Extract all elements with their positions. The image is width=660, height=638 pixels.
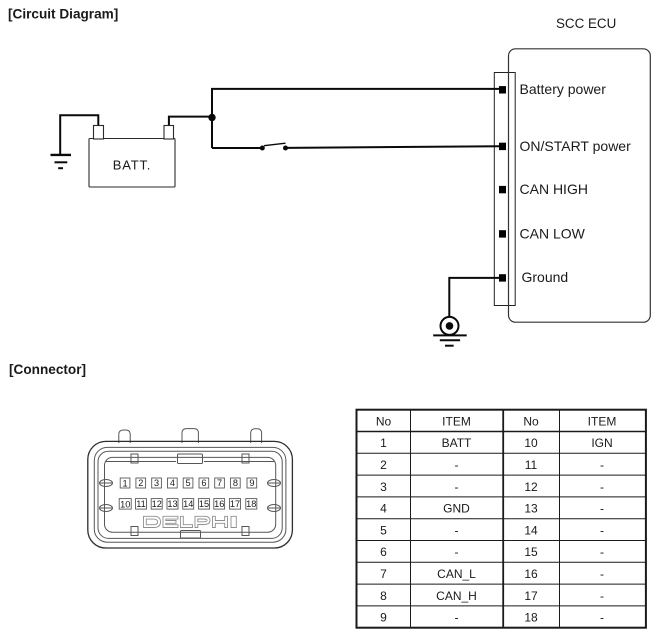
svg-text:SCC ECU: SCC ECU	[556, 16, 616, 31]
svg-text:11: 11	[525, 458, 538, 472]
svg-text:-: -	[455, 611, 459, 625]
svg-text:5: 5	[380, 523, 387, 537]
svg-text:16: 16	[214, 499, 224, 509]
svg-text:-: -	[455, 458, 459, 472]
svg-text:IGN: IGN	[591, 436, 612, 450]
svg-text:4: 4	[380, 502, 387, 516]
svg-text:Ground: Ground	[522, 269, 569, 285]
svg-text:6: 6	[380, 545, 387, 559]
svg-text:1: 1	[123, 478, 128, 488]
svg-text:11: 11	[136, 499, 146, 509]
svg-text:18: 18	[246, 499, 256, 509]
svg-text:No: No	[376, 414, 392, 428]
svg-text:13: 13	[524, 502, 538, 516]
svg-text:-: -	[455, 545, 459, 559]
svg-text:10: 10	[120, 499, 130, 509]
svg-text:9: 9	[380, 611, 387, 625]
svg-text:17: 17	[524, 589, 538, 603]
svg-text:CAN_L: CAN_L	[437, 567, 476, 581]
svg-text:7: 7	[380, 567, 387, 581]
svg-text:-: -	[600, 545, 604, 559]
svg-text:8: 8	[233, 478, 238, 488]
svg-text:12: 12	[152, 499, 162, 509]
svg-text:BATT: BATT	[442, 436, 472, 450]
svg-text:-: -	[455, 523, 459, 537]
svg-text:12: 12	[524, 480, 538, 494]
svg-text:[Circuit Diagram]: [Circuit Diagram]	[8, 7, 118, 22]
svg-text:18: 18	[524, 611, 538, 625]
svg-text:-: -	[600, 502, 604, 516]
svg-text:5: 5	[186, 478, 191, 488]
svg-text:ON/START power: ON/START power	[520, 138, 632, 154]
svg-text:13: 13	[167, 499, 177, 509]
svg-text:-: -	[600, 567, 604, 581]
svg-text:-: -	[600, 589, 604, 603]
svg-text:17: 17	[230, 499, 240, 509]
svg-text:No: No	[523, 414, 539, 428]
svg-text:16: 16	[524, 567, 538, 581]
svg-text:1: 1	[380, 436, 387, 450]
svg-text:ITEM: ITEM	[588, 414, 617, 428]
svg-text:-: -	[455, 480, 459, 494]
svg-text:Battery power: Battery power	[520, 81, 607, 97]
svg-text:14: 14	[524, 523, 538, 537]
svg-text:2: 2	[138, 478, 143, 488]
svg-text:-: -	[600, 611, 604, 625]
svg-text:15: 15	[199, 499, 209, 509]
svg-text:7: 7	[217, 478, 222, 488]
svg-text:CAN_H: CAN_H	[436, 589, 477, 603]
svg-text:-: -	[600, 523, 604, 537]
svg-text:15: 15	[524, 545, 538, 559]
svg-text:4: 4	[170, 478, 175, 488]
svg-text:CAN LOW: CAN LOW	[520, 225, 586, 241]
svg-text:9: 9	[249, 478, 254, 488]
svg-text:GND: GND	[443, 502, 470, 516]
svg-text:ITEM: ITEM	[442, 414, 471, 428]
svg-text:10: 10	[524, 436, 538, 450]
svg-text:-: -	[600, 480, 604, 494]
svg-text:CAN HIGH: CAN HIGH	[520, 181, 588, 197]
svg-text:2: 2	[380, 458, 387, 472]
svg-text:6: 6	[201, 478, 206, 488]
svg-text:-: -	[600, 458, 604, 472]
svg-text:14: 14	[183, 499, 193, 509]
svg-text:[Connector]: [Connector]	[9, 362, 86, 377]
svg-text:8: 8	[380, 589, 387, 603]
svg-text:3: 3	[154, 478, 159, 488]
svg-text:3: 3	[380, 480, 387, 494]
svg-text:BATT.: BATT.	[113, 158, 151, 173]
